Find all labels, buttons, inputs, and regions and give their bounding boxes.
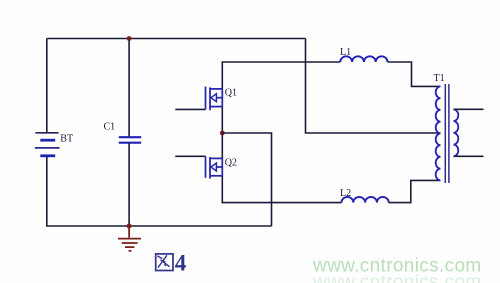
wire T1 secondary bottom lead xyxy=(454,155,484,157)
wire junction to bottom rail xyxy=(222,133,271,226)
transformer T1 core xyxy=(445,84,449,183)
transformer T1 primary winding xyxy=(436,86,441,180)
wire Q1 drain up to L1 xyxy=(222,62,340,89)
wire Q2 gate lead xyxy=(175,155,205,157)
wire center-tap feed (top rail right, down, to T1 center) xyxy=(306,39,441,134)
inductor L1 xyxy=(340,56,387,62)
wire Q2 source to L2 xyxy=(222,176,341,203)
svg-text:C1: C1 xyxy=(104,122,116,133)
wire Q1 gate lead xyxy=(175,108,205,110)
svg-text:Q2: Q2 xyxy=(225,157,237,168)
ground xyxy=(118,226,141,251)
inductor L2 xyxy=(342,197,389,203)
wire battery bottom xyxy=(47,157,272,226)
wire left vertical battery top xyxy=(46,39,48,133)
node junction dot half-bridge xyxy=(220,131,225,136)
transformer T1 secondary winding xyxy=(454,109,459,156)
wire L2 to T1 primary bottom xyxy=(389,180,441,202)
wire top rail xyxy=(47,38,306,40)
label figure caption 图4 xyxy=(156,254,173,271)
wire C1 top xyxy=(128,39,130,137)
svg-text:L1: L1 xyxy=(340,47,351,58)
capacitor C1 xyxy=(119,137,141,143)
svg-text:BT: BT xyxy=(60,134,73,145)
svg-text:L2: L2 xyxy=(340,188,351,199)
transistor Q2 xyxy=(206,156,223,178)
svg-text:www.cntronics.com: www.cntronics.com xyxy=(312,256,482,277)
svg-text:4: 4 xyxy=(175,250,187,275)
wire C1 bottom xyxy=(128,143,130,226)
svg-text:T1: T1 xyxy=(434,73,445,84)
wire T1 secondary top lead xyxy=(454,108,484,110)
svg-text:Q1: Q1 xyxy=(225,88,237,99)
battery BT xyxy=(35,133,60,156)
node junction dot ground xyxy=(127,224,132,229)
transistor Q1 xyxy=(206,87,223,111)
wire Q1 source / Q2 drain vertical xyxy=(221,107,223,159)
wire L1 to T1 primary top xyxy=(388,62,441,86)
node junction dot top rail / C1 xyxy=(127,36,132,41)
